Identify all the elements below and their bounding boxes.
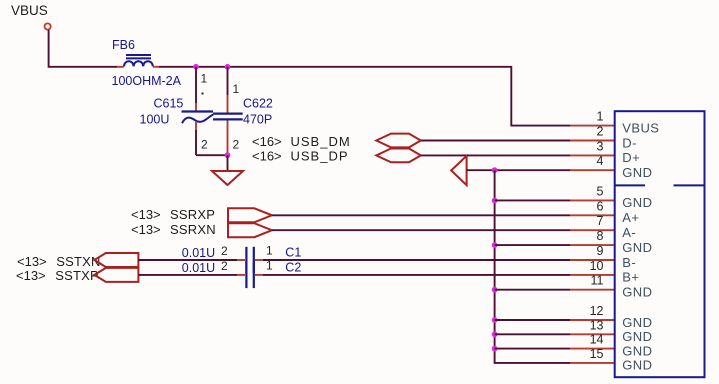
port USB_DP hexagon	[376, 149, 421, 163]
svg-text:100U: 100U	[140, 113, 170, 127]
svg-text:D-: D-	[622, 135, 637, 150]
svg-text:2: 2	[201, 138, 208, 152]
svg-text:6: 6	[597, 199, 604, 213]
svg-text:13: 13	[590, 318, 604, 332]
pin circle VBUS	[45, 23, 51, 29]
wire pin14 GND branch	[492, 346, 615, 352]
wire VBUS rail to connector corner	[159, 67, 570, 126]
junction GND bus top	[492, 167, 498, 173]
svg-text:GND: GND	[622, 285, 652, 300]
svg-text:7: 7	[597, 214, 604, 228]
svg-text:8: 8	[597, 229, 604, 243]
wire C615 bottom jog to C622 bottom	[196, 154, 228, 156]
wire VBUS down and right to FB6	[49, 30, 117, 67]
junction C622 tap	[225, 64, 231, 70]
svg-text:SSRXP: SSRXP	[170, 207, 215, 222]
polarity mark C615	[202, 93, 204, 95]
svg-text:9: 9	[597, 244, 604, 258]
svg-text:10: 10	[590, 259, 604, 273]
svg-text:<13>: <13>	[16, 268, 46, 283]
wire SSRXP to pin6	[272, 214, 570, 216]
port USB_DM hexagon	[376, 134, 421, 148]
wire pin13 GND branch	[492, 331, 615, 337]
svg-text:C1: C1	[285, 245, 301, 259]
wire pin1 stub	[570, 125, 615, 127]
port SSRXN	[228, 223, 272, 237]
wire pin15 stub	[570, 362, 615, 364]
ground triangle left-pointing at pin4	[451, 156, 466, 185]
svg-text:GND: GND	[622, 343, 652, 358]
wire pin6 stub	[570, 214, 615, 216]
svg-text:<16>: <16>	[252, 149, 282, 164]
wire C1 to pin9	[255, 259, 615, 261]
wire pin12 GND branch	[492, 317, 615, 323]
svg-text:C622: C622	[243, 97, 273, 111]
svg-text:1: 1	[266, 244, 273, 258]
svg-text:3: 3	[597, 139, 604, 153]
wire C2 to pin10	[255, 274, 615, 276]
wire to ground	[227, 155, 229, 170]
capacitor C622	[213, 67, 243, 155]
svg-text:5: 5	[597, 184, 604, 198]
wire pin4 GND	[467, 169, 570, 171]
svg-text:2: 2	[597, 125, 604, 139]
junction C615 tap	[193, 64, 199, 70]
connector J1 body	[615, 111, 705, 377]
wire USB_DP to pin3	[421, 154, 570, 156]
svg-text:B-: B-	[622, 255, 636, 270]
net label SSTXP	[16, 268, 99, 283]
svg-text:A-: A-	[622, 225, 636, 240]
port SSTXN	[94, 253, 138, 267]
wire pin4 stub	[570, 169, 615, 171]
svg-text:14: 14	[590, 333, 604, 347]
svg-text:GND: GND	[622, 315, 652, 330]
svg-text:100OHM-2A: 100OHM-2A	[112, 74, 182, 88]
svg-text:<13>: <13>	[17, 254, 47, 269]
svg-text:GND: GND	[622, 165, 652, 180]
wire USB_DM to pin2	[421, 140, 570, 142]
port SSRXP	[228, 208, 272, 222]
net label USB_DP	[252, 149, 349, 164]
svg-text:C615: C615	[154, 97, 184, 111]
svg-text:11: 11	[591, 274, 604, 288]
svg-text:GND: GND	[622, 329, 652, 344]
svg-text:SSTXN: SSTXN	[56, 254, 100, 269]
svg-text:SSRXN: SSRXN	[170, 222, 216, 237]
svg-text:12: 12	[590, 304, 604, 318]
svg-text:<16>: <16>	[252, 134, 282, 149]
svg-text:1: 1	[597, 110, 604, 124]
svg-text:4: 4	[597, 154, 604, 168]
net label USB_DM	[252, 134, 351, 149]
capacitor C615	[182, 67, 214, 155]
wire SSTXN to C1	[138, 259, 245, 261]
svg-text:15: 15	[590, 347, 604, 361]
capacitor C1 right plate	[253, 247, 255, 273]
wire pin11 GND branch	[492, 287, 615, 293]
svg-text:GND: GND	[622, 195, 652, 210]
svg-text:1: 1	[233, 82, 240, 96]
capacitor C2 left plate	[245, 262, 247, 288]
wire pin2 stub	[570, 140, 615, 142]
net label SSRXP	[131, 207, 215, 222]
svg-text:VBUS: VBUS	[622, 120, 659, 135]
pin numbers 1-15	[590, 110, 604, 361]
wire SSRXN to pin7	[272, 229, 570, 231]
svg-text:FB6: FB6	[112, 38, 135, 52]
svg-text:GND: GND	[622, 240, 652, 255]
svg-text:D+: D+	[622, 150, 640, 165]
svg-text:470P: 470P	[243, 113, 272, 127]
svg-text:0.01U: 0.01U	[182, 246, 215, 260]
ground	[212, 171, 243, 185]
svg-text:1: 1	[201, 72, 208, 86]
svg-text:VBUS: VBUS	[11, 3, 48, 18]
capacitor C1 left plate	[245, 247, 247, 273]
wire GND bus vertical to pin15	[495, 170, 570, 363]
connector section divider left segment	[615, 184, 645, 186]
svg-text:USB_DP: USB_DP	[291, 149, 349, 164]
svg-text:B+: B+	[622, 270, 639, 285]
svg-text:0.01U: 0.01U	[182, 261, 215, 275]
svg-text:<13>: <13>	[131, 207, 161, 222]
junction caps to ground	[225, 152, 231, 158]
pin names	[622, 120, 659, 372]
svg-text:<13>: <13>	[131, 222, 161, 237]
port SSTXP	[94, 268, 138, 282]
net label SSRXN	[131, 222, 216, 237]
capacitor C2 right plate	[253, 262, 255, 288]
wire pin3 stub	[570, 154, 615, 156]
svg-text:SSTXP: SSTXP	[55, 268, 99, 283]
svg-text:GND: GND	[622, 358, 652, 373]
svg-text:2: 2	[221, 244, 228, 258]
connector section divider right segment	[674, 184, 705, 186]
wire SSTXP to C2	[138, 274, 245, 276]
wire pin5 GND branch	[492, 198, 615, 204]
wire pin8 GND branch	[492, 242, 615, 248]
svg-text:2: 2	[221, 259, 228, 273]
svg-text:C2: C2	[285, 261, 301, 275]
svg-text:USB_DM: USB_DM	[291, 134, 351, 149]
svg-text:2: 2	[233, 138, 240, 152]
ferrite bead FB6	[117, 55, 159, 67]
wire pin7 stub	[570, 229, 615, 231]
net label SSTXN	[17, 254, 101, 269]
svg-text:A+: A+	[622, 210, 639, 225]
